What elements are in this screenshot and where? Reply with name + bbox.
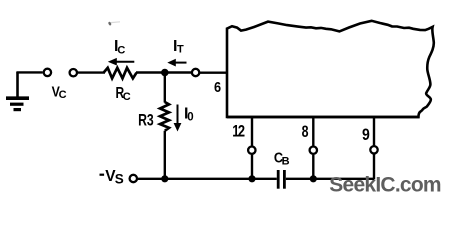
label pin 9 <box>362 126 370 144</box>
bottom rail left segment <box>138 178 277 180</box>
current arrow IC <box>108 58 135 66</box>
svg-text:R3: R3 <box>138 112 154 130</box>
svg-text:T: T <box>177 43 184 55</box>
resistor RC <box>104 68 137 79</box>
svg-text:B: B <box>282 155 290 167</box>
pin 12 circle <box>248 147 255 154</box>
pin 8 stub lower <box>312 155 314 179</box>
pin 8 stub upper <box>312 117 314 146</box>
svg-text:6: 6 <box>214 78 221 95</box>
svg-text:C: C <box>59 89 67 101</box>
label pin 8 <box>302 123 309 141</box>
label VC <box>52 84 60 100</box>
wire junction down to R3 <box>164 71 166 103</box>
svg-text:S: S <box>115 171 124 186</box>
svg-text:C: C <box>117 44 125 56</box>
wire circle3 to box pin6 <box>200 71 228 73</box>
pin 12 stub upper <box>251 117 253 146</box>
current arrow IT <box>167 59 186 67</box>
node terminal circle 2 <box>70 69 77 76</box>
capacitor CB plate right <box>283 170 286 189</box>
pin 9 circle <box>370 146 377 153</box>
label CB <box>274 150 283 166</box>
bottom rail right segment <box>286 178 374 180</box>
stray pen mark <box>108 21 112 26</box>
capacitor CB plate left <box>277 170 280 189</box>
label RC <box>116 83 125 101</box>
pin 9 stub lower <box>373 154 375 179</box>
label R3 <box>138 112 154 130</box>
junction node top <box>161 69 169 77</box>
junction node pin12 bottom <box>248 175 255 182</box>
label pin 12 <box>232 123 245 141</box>
pin 8 circle <box>310 147 317 154</box>
label pin 6 <box>214 78 221 95</box>
wire ground to VC terminal <box>16 71 42 73</box>
node terminal circle 3 <box>192 69 199 76</box>
svg-text:12: 12 <box>232 123 245 141</box>
wire circle2 to RC <box>78 71 106 73</box>
IC box outline <box>227 21 434 117</box>
junction node pin8 bottom <box>310 175 317 182</box>
ground <box>6 72 29 110</box>
label -VS minus sign <box>100 174 105 176</box>
node -VS terminal circle <box>130 175 137 182</box>
pin 9 stub upper <box>373 117 375 145</box>
svg-text:0: 0 <box>187 112 193 124</box>
pin 12 stub lower <box>251 155 253 179</box>
node VC terminal circle 1 <box>44 69 51 76</box>
wire R3 down to bottom rail <box>164 131 166 179</box>
svg-text:8: 8 <box>302 123 309 141</box>
current arrow I0 <box>174 105 182 132</box>
wire RC to junction <box>136 71 192 73</box>
svg-text:C: C <box>123 91 131 103</box>
bottom edge of box (thicker) <box>227 116 420 119</box>
junction node bottom of R3 <box>161 175 168 182</box>
svg-text:9: 9 <box>362 126 370 144</box>
resistor R3 <box>160 102 169 131</box>
svg-text:SeekIC.com: SeekIC.com <box>329 173 441 196</box>
